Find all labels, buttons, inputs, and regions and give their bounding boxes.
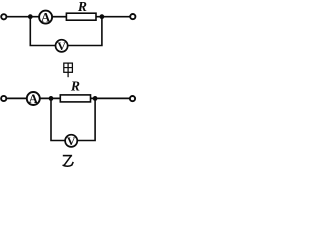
resistor R (bottom) [60, 95, 90, 102]
ammeter A2 [27, 92, 40, 106]
node J3 (junction dot, bottom circuit left) [49, 96, 54, 101]
wire A1 to resistor R [52, 16, 66, 18]
terminal T3 (bottom-left open circle) [1, 96, 6, 101]
wire R to terminal T2 [96, 16, 130, 18]
terminal T4 (bottom-right open circle) [130, 96, 135, 101]
svg-text:V: V [67, 134, 76, 148]
node J2 (junction dot, top-right) [100, 14, 105, 19]
wire voltmeter branch right (V1 right and up to J2) [68, 17, 102, 46]
svg-text:R: R [77, 0, 87, 14]
svg-text:A: A [41, 10, 51, 24]
label R (top resistor value) [77, 0, 87, 14]
svg-text:R: R [70, 79, 80, 94]
wire voltmeter branch left (J1 down and right to V1) [30, 17, 55, 46]
terminal T2 (top-right open circle) [130, 14, 135, 19]
ammeter A1 [39, 10, 52, 24]
voltmeter V2 [65, 134, 77, 148]
voltmeter V1 [56, 39, 68, 53]
terminal T1 (top-left open circle) [1, 14, 6, 19]
wire A2 to resistor R (bottom) [40, 97, 61, 99]
label R (bottom resistor value) [70, 79, 80, 94]
wire voltmeter branch left (J3 down and right to V2) [51, 98, 65, 140]
wire T3 to ammeter A2 [7, 97, 28, 99]
label yi (Chinese caption of bottom circuit) [63, 156, 73, 167]
wire voltmeter branch right (V2 right and up to J4) [77, 98, 95, 140]
svg-text:V: V [57, 39, 66, 53]
label jia (Chinese caption of top circuit) [64, 63, 73, 77]
svg-text:A: A [29, 92, 39, 106]
wire R to terminal T4 [91, 97, 130, 99]
node J1 (junction dot, top-left) [28, 14, 33, 19]
node J4 (junction dot, bottom circuit right) [93, 96, 98, 101]
wire T1 to ammeter A1 [7, 16, 39, 18]
resistor R (top) [66, 13, 96, 20]
